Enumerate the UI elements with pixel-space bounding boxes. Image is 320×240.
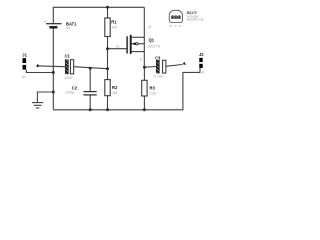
svg-text:1M: 1M: [112, 90, 117, 95]
node ground stub: [52, 91, 55, 94]
svg-text:BS170: BS170: [148, 44, 161, 49]
node R2 bottom: [106, 108, 109, 111]
svg-text:4.7uF: 4.7uF: [154, 74, 165, 79]
svg-text:J2: J2: [199, 52, 204, 57]
node R3 bottom: [143, 108, 146, 111]
svg-text:In: In: [22, 74, 25, 79]
svg-text:22K: 22K: [149, 91, 156, 96]
svg-text:J1: J1: [22, 52, 27, 57]
capacitor C1: [64, 54, 74, 81]
node C2 bottom: [89, 108, 92, 111]
node source tee: [143, 66, 146, 69]
svg-text:+: +: [43, 20, 45, 24]
svg-text:10uF: 10uF: [64, 75, 73, 80]
ground: [32, 92, 54, 108]
wire C1 to gate node: [74, 67, 108, 69]
wire battery negative to ground rail: [52, 29, 54, 110]
svg-text:C3: C3: [155, 56, 161, 61]
node J1 sleeve junction: [52, 71, 55, 74]
pinout icon TO-92 bottom view: [169, 10, 182, 28]
svg-text:330p: 330p: [65, 90, 74, 95]
resistor R1: [105, 7, 117, 48]
svg-text:9V: 9V: [66, 26, 71, 31]
node C2 top tee: [89, 67, 92, 70]
battery BAT1: [43, 20, 77, 31]
wire bottom ground rail: [53, 68, 200, 110]
wire C3 to J2 tip: [166, 65, 182, 67]
svg-text:S: S: [179, 24, 181, 28]
wire drain to rail: [143, 7, 145, 37]
svg-text:C1: C1: [65, 54, 71, 59]
capacitor C3: [154, 56, 166, 79]
connector J2: [182, 52, 204, 74]
node R1 top on rail: [106, 6, 109, 9]
resistor R3: [142, 67, 157, 110]
wire J1 tip to C1: [39, 65, 65, 68]
resistor R2: [105, 69, 118, 110]
wire source down: [143, 52, 145, 68]
capacitor C2: [65, 68, 96, 110]
svg-text:Out: Out: [198, 70, 205, 75]
wire gate node vertical: [107, 49, 109, 69]
wire gate: [108, 48, 127, 50]
wire J1 sleeve to ground: [26, 70, 53, 73]
node gate tee: [106, 47, 109, 50]
transistor Q1: [127, 36, 161, 54]
connector J1: [22, 52, 40, 78]
svg-text:D: D: [149, 25, 152, 29]
svg-text:G: G: [116, 44, 119, 48]
wire source node to C3: [144, 66, 156, 69]
svg-text:MOSFET 0.5A: MOSFET 0.5A: [187, 18, 204, 22]
svg-text:Q1: Q1: [149, 38, 155, 43]
pinout text BS170: [187, 11, 204, 21]
node gate-C1 tee: [106, 67, 109, 70]
wire top rail V+: [53, 7, 144, 23]
svg-text:1M: 1M: [111, 25, 116, 30]
